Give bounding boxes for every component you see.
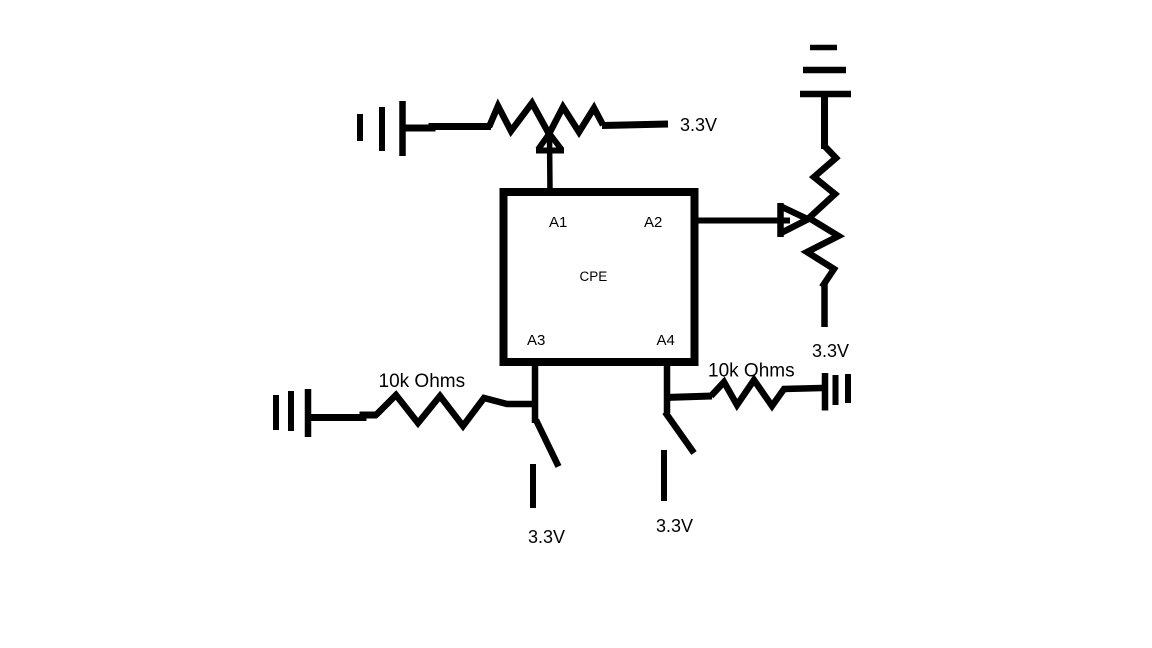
wire A4 to R4 xyxy=(665,396,712,398)
svg-text:A2: A2 xyxy=(644,214,662,231)
ground GND2 (top right, horizontal bars) xyxy=(800,48,851,95)
svg-text:A3: A3 xyxy=(527,332,545,349)
wire 3.3V stub (A3) xyxy=(530,464,536,508)
ground GND4 (bottom right) xyxy=(825,373,848,411)
wire R2 to 3.3V xyxy=(821,284,828,327)
potentiometer R2 (right, vertical zigzag) xyxy=(807,146,839,287)
svg-text:CPE: CPE xyxy=(580,269,608,284)
svg-text:3.3V: 3.3V xyxy=(528,527,565,547)
wire A2 to wiper of R2 xyxy=(697,218,790,224)
svg-text:3.3V: 3.3V xyxy=(812,341,849,361)
wire GND2 down to R2 xyxy=(821,96,828,149)
resistor R4 (10k, zigzag) xyxy=(711,380,822,406)
svg-text:3.3V: 3.3V xyxy=(680,115,717,135)
resistor R3 (10k, zigzag) xyxy=(375,395,536,426)
wiper arrow R2 (points right) xyxy=(780,203,809,237)
wiper arrow R1 xyxy=(536,134,564,151)
svg-text:3.3V: 3.3V xyxy=(656,516,693,536)
svg-text:A1: A1 xyxy=(549,214,567,231)
wire wiper of R1 down to pin A1 xyxy=(547,134,553,192)
wire GND3 to R3 xyxy=(310,415,377,418)
ground GND3 (bottom left) xyxy=(276,389,308,437)
switch SW1 (A3 diagonal) xyxy=(536,420,559,467)
switch SW2 (A4 diagonal) xyxy=(665,412,694,453)
potentiometer R1 (top, zigzag) xyxy=(489,103,603,134)
svg-text:A4: A4 xyxy=(657,332,675,349)
wire GND1 to R1 xyxy=(404,127,491,129)
wire A4 down xyxy=(664,364,671,413)
svg-text:10k Ohms: 10k Ohms xyxy=(379,371,466,392)
wire R1 to 3.3V xyxy=(602,124,668,126)
wire 3.3V stub (A4) xyxy=(661,450,667,501)
ground GND1 (top left) xyxy=(360,101,403,156)
wire A3 down xyxy=(532,364,539,423)
CPE box U1 xyxy=(504,192,695,362)
